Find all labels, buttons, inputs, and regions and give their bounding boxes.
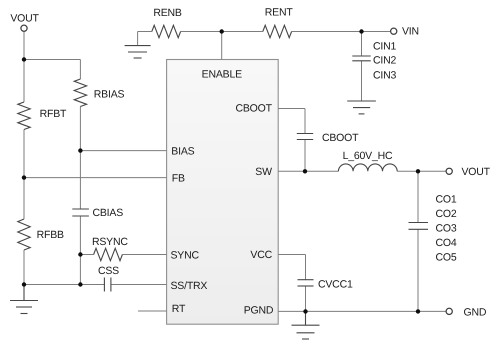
- svg-text:VOUT: VOUT: [10, 12, 39, 24]
- svg-text:SW: SW: [255, 166, 272, 178]
- wire: [361, 61, 363, 102]
- svg-text:SYNC: SYNC: [171, 250, 200, 262]
- node SW junction: [303, 169, 307, 173]
- svg-text:CVCC1: CVCC1: [318, 278, 353, 290]
- wire: [79, 216, 81, 255]
- svg-text:CBIAS: CBIAS: [93, 207, 124, 219]
- wire: [137, 32, 139, 46]
- wire: [278, 108, 305, 110]
- wire: [361, 32, 363, 57]
- wire: [304, 140, 306, 172]
- wire: [24, 177, 167, 179]
- node GND terminal: [446, 308, 452, 314]
- capacitor CBOOT: [297, 134, 313, 140]
- wire: [305, 255, 307, 280]
- svg-text:GND: GND: [464, 307, 487, 319]
- svg-text:FB: FB: [172, 172, 185, 184]
- resistor RSYNC: [94, 248, 123, 260]
- node SS mid junction: [78, 282, 82, 286]
- node BIAS junction: [78, 148, 82, 152]
- resistor RFBT: [18, 102, 30, 130]
- wire: [138, 31, 152, 33]
- ground (CIN): [347, 101, 376, 114]
- svg-text:SS/TRX: SS/TRX: [171, 280, 208, 292]
- svg-text:CIN3: CIN3: [373, 70, 396, 82]
- ground (RENB): [125, 46, 151, 58]
- wire: [292, 31, 391, 33]
- svg-text:CO5: CO5: [436, 251, 457, 263]
- ground (left rail): [10, 285, 38, 314]
- node FB junction: [22, 175, 26, 179]
- ground (PGND): [292, 311, 320, 339]
- svg-text:RFBT: RFBT: [40, 108, 67, 120]
- wire: [138, 310, 167, 312]
- wire: [305, 286, 307, 311]
- capacitor CVCC1: [298, 280, 314, 286]
- wire: [417, 171, 419, 222]
- wire: [417, 229, 419, 311]
- node VIN junction: [359, 29, 363, 33]
- svg-text:VCC: VCC: [250, 249, 272, 261]
- node RSYNC junction: [78, 252, 82, 256]
- node VOUT right terminal: [446, 168, 452, 174]
- wire: [23, 178, 25, 219]
- wire: [23, 60, 25, 103]
- svg-text:CO4: CO4: [436, 237, 457, 249]
- resistor RENT: [263, 25, 292, 37]
- svg-text:RENT: RENT: [265, 6, 294, 18]
- svg-text:RBIAS: RBIAS: [94, 89, 125, 101]
- svg-text:PGND: PGND: [244, 305, 274, 317]
- node GND junction: [416, 309, 420, 313]
- svg-text:CIN1: CIN1: [373, 40, 396, 52]
- svg-text:ENABLE: ENABLE: [202, 69, 242, 81]
- wire: [24, 59, 80, 61]
- wire: [23, 250, 25, 285]
- wire: [79, 60, 81, 80]
- svg-text:CSS: CSS: [98, 265, 119, 277]
- node PGND junction: [303, 309, 307, 313]
- capacitor CIN1/2/3: [352, 56, 370, 61]
- svg-text:CO3: CO3: [436, 223, 457, 235]
- wire: [80, 254, 93, 256]
- svg-text:L_60V_HC: L_60V_HC: [343, 150, 393, 162]
- capacitor CO1-CO5: [409, 223, 429, 230]
- svg-text:BIAS: BIAS: [171, 146, 194, 158]
- svg-text:VIN: VIN: [402, 26, 419, 38]
- node SS left junction: [22, 282, 26, 286]
- wire: [221, 32, 223, 60]
- capacitor CSS: [104, 278, 111, 292]
- wire: [24, 284, 104, 286]
- wire: [23, 130, 25, 178]
- wire: [23, 31, 25, 60]
- node VIN terminal: [391, 28, 397, 34]
- svg-text:CO2: CO2: [436, 208, 457, 220]
- svg-text:CO1: CO1: [436, 194, 457, 206]
- wire: [304, 109, 306, 134]
- wire: [80, 150, 166, 152]
- svg-text:CBOOT: CBOOT: [235, 103, 272, 115]
- node VOUT right junction: [416, 169, 420, 173]
- svg-text:CIN2: CIN2: [373, 54, 396, 66]
- svg-text:RENB: RENB: [153, 7, 182, 19]
- svg-text:CBOOT: CBOOT: [322, 132, 359, 144]
- wire: [397, 170, 446, 172]
- node ENABLE junction: [220, 29, 224, 33]
- resistor RFBB: [18, 219, 30, 250]
- capacitor CBIAS: [72, 209, 89, 216]
- wire: [278, 310, 446, 312]
- wire: [278, 170, 338, 172]
- wire: [79, 255, 81, 285]
- wire: [111, 284, 167, 286]
- wire: [79, 151, 81, 209]
- wire: [181, 31, 263, 33]
- node VOUT top-left junction: [22, 57, 26, 61]
- svg-text:VOUT: VOUT: [462, 166, 491, 178]
- wire: [79, 107, 81, 151]
- resistor RBIAS: [74, 79, 86, 107]
- inductor L_60V_HC: [338, 164, 397, 171]
- svg-text:RT: RT: [172, 303, 186, 315]
- svg-text:RFBB: RFBB: [37, 229, 64, 241]
- wire: [122, 254, 166, 256]
- node VOUT terminal: [21, 25, 27, 31]
- wire: [278, 254, 305, 256]
- resistor RENB: [152, 25, 181, 37]
- svg-text:RSYNC: RSYNC: [92, 236, 128, 248]
